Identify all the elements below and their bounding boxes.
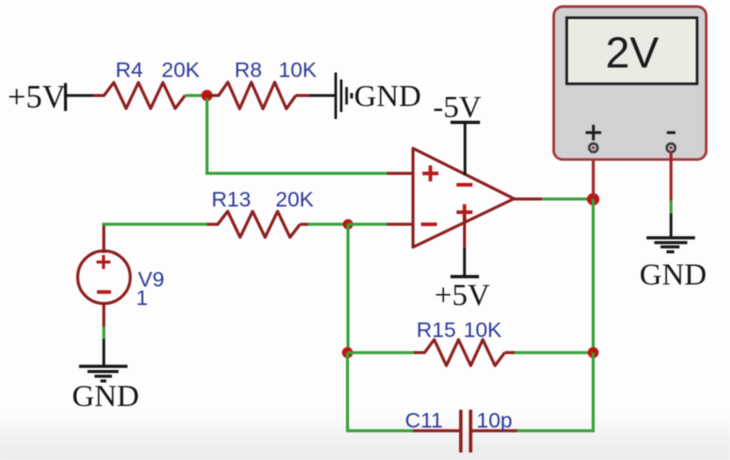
wire R8 to ground [310, 94, 336, 97]
value 10K [279, 58, 318, 82]
label R13 [212, 188, 251, 212]
node C junction (output) [587, 193, 599, 205]
label V9 [138, 268, 164, 292]
svg-text:R15: R15 [417, 318, 456, 342]
node A junction [201, 90, 212, 101]
svg-text:20K: 20K [162, 58, 201, 82]
svg-text:R8: R8 [235, 58, 263, 82]
voltmeter - terminal [667, 144, 676, 153]
value 20K [162, 58, 201, 82]
source V9 top pin wire [102, 224, 105, 253]
wire R15 to node D [515, 351, 594, 354]
wire op-amp bottom to +5V (black part) [463, 248, 466, 276]
node D junction [588, 347, 599, 358]
wire node C up to meter + terminal [592, 151, 595, 199]
wire node C down to node D [592, 199, 595, 353]
voltmeter + label [586, 125, 602, 141]
node E junction [342, 347, 353, 358]
wire node A down and to op-amp + input [207, 98, 388, 173]
source V9 minus mark [97, 290, 111, 294]
wire output to node C [542, 198, 593, 201]
resistor R13 [207, 211, 309, 237]
svg-text:10p: 10p [477, 409, 513, 433]
svg-text:R4: R4 [116, 58, 144, 82]
svg-text:GND: GND [640, 257, 707, 292]
label R15 [417, 318, 456, 342]
op-amp V+ mark (plus, bottom) [457, 204, 473, 220]
source V9 plus mark [97, 255, 111, 269]
wire -5V to op-amp top [464, 122, 467, 175]
value 10K [464, 318, 503, 342]
resistor R15 [414, 340, 516, 366]
wire node D down and left to C11 [516, 353, 593, 431]
svg-text:20K: 20K [276, 188, 315, 212]
resistor R4 [93, 83, 185, 109]
ground (right of R8) [336, 73, 352, 120]
op-amp + input mark [422, 165, 438, 181]
svg-text:GND: GND [72, 378, 139, 413]
value 10p [477, 409, 513, 433]
op-amp output pin [514, 198, 543, 201]
voltmeter - label [667, 131, 676, 134]
voltmeter body [554, 7, 707, 160]
wire node E to R15 [348, 351, 416, 354]
svg-text:C11: C11 [405, 409, 443, 433]
value 1 [136, 286, 148, 310]
op-amp U1 input pin stubs [387, 173, 413, 224]
label R8 [235, 58, 263, 82]
wire node B down to node E [347, 224, 350, 352]
terminal -5V tick [451, 121, 481, 124]
source V9 circle [78, 251, 131, 304]
ground (under V9) [79, 366, 128, 381]
label -5V [433, 89, 482, 124]
svg-text:10K: 10K [464, 318, 503, 342]
wire R4 to node A [185, 94, 207, 97]
op-amp U1 body [413, 148, 514, 247]
svg-text:GND: GND [354, 78, 421, 113]
capacitor C11 plates [461, 410, 471, 453]
value 20K [276, 188, 315, 212]
terminal +5V label [8, 80, 67, 116]
terminal +5V tick (bottom) [451, 275, 480, 278]
op-amp - input mark [421, 223, 437, 227]
label R4 [116, 58, 144, 82]
terminal +5V tick [64, 83, 67, 111]
source V9 bottom pin wire [102, 303, 105, 366]
voltmeter display [567, 18, 697, 84]
capacitor C11 right lead [472, 429, 517, 432]
svg-text:R13: R13 [212, 188, 251, 212]
svg-text:+5V: +5V [435, 277, 491, 312]
voltmeter + terminal [589, 144, 598, 153]
svg-text:+5V: +5V [8, 80, 67, 116]
wire from +5V terminal [66, 94, 95, 97]
ground label GND (right) [640, 257, 707, 292]
wire V9 to R13 [102, 223, 208, 226]
resistor R8 [207, 82, 311, 109]
svg-text:10K: 10K [279, 58, 318, 82]
capacitor C11 left lead [412, 429, 460, 432]
svg-text:1: 1 [136, 286, 148, 310]
ground (under meter) [647, 238, 696, 252]
wire meter - terminal down [670, 151, 673, 237]
wire node B to op-amp - input [348, 223, 388, 226]
ground label GND (top) [354, 78, 421, 113]
svg-text:-5V: -5V [433, 89, 482, 124]
voltmeter reading 2V [606, 30, 659, 78]
svg-text:2V: 2V [606, 30, 659, 78]
wire C11 left and up to node E [348, 353, 414, 431]
node B junction [343, 219, 353, 229]
ground label GND (bottom left) [72, 378, 139, 413]
label +5V (bottom) [435, 277, 491, 312]
wire R13 to node B [308, 223, 348, 226]
label C11 [405, 409, 443, 433]
op-amp V- mark (minus, top) [457, 183, 473, 187]
wire op-amp bottom to +5V (red part) [463, 215, 466, 248]
